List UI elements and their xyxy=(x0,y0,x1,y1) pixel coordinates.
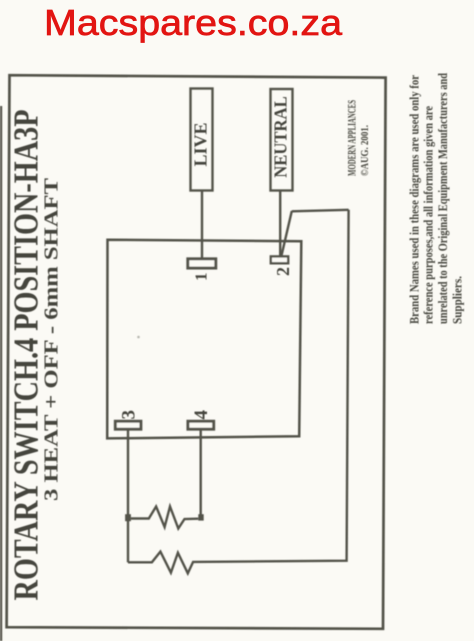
node square left xyxy=(125,514,131,521)
terminal 1 xyxy=(188,259,216,268)
svg-text:Suppliers.: Suppliers. xyxy=(450,276,465,324)
wire terminal 4 down xyxy=(199,429,201,515)
wire diagonal from terminal 2 xyxy=(281,211,292,256)
resistor R1 xyxy=(131,507,199,529)
paper speck xyxy=(137,336,140,339)
svg-text:MODERN APPLIANCES: MODERN APPLIANCES xyxy=(347,100,359,176)
wire node left down xyxy=(127,521,129,562)
svg-text:3: 3 xyxy=(119,410,140,420)
svg-text:reference purposes,and all inf: reference purposes,and all information g… xyxy=(421,106,436,324)
svg-text:1: 1 xyxy=(192,273,211,282)
NEUTRAL box xyxy=(271,89,293,191)
svg-text:Macspares.co.za: Macspares.co.za xyxy=(44,2,343,43)
wire terminal 3 down xyxy=(127,429,129,515)
resistor R2 and return wire to terminal 2 line xyxy=(128,210,349,574)
scan edge artifact left xyxy=(0,106,2,641)
svg-text:NEUTRAL: NEUTRAL xyxy=(271,96,291,178)
svg-text:4: 4 xyxy=(191,410,212,420)
svg-text:2: 2 xyxy=(273,267,293,276)
switch body box xyxy=(107,240,301,439)
terminal 2 xyxy=(271,256,288,263)
wire NEUTRAL to terminal 2 xyxy=(279,191,281,258)
LIVE box xyxy=(191,89,213,191)
node square right xyxy=(198,514,203,520)
outer page border xyxy=(7,75,386,629)
wire LIVE to terminal 1 xyxy=(201,191,203,260)
svg-text:©AUG. 2001.: ©AUG. 2001. xyxy=(359,125,371,176)
svg-text:3 HEAT + OFF - 6mm SHAFT: 3 HEAT + OFF - 6mm SHAFT xyxy=(41,177,63,501)
terminal 4 xyxy=(188,421,214,429)
terminal 3 xyxy=(115,421,141,429)
svg-text:LIVE: LIVE xyxy=(191,123,211,167)
svg-text:Brand Names used in these diag: Brand Names used in these diagrams are u… xyxy=(407,75,422,324)
wire horizontal to right xyxy=(292,210,349,212)
svg-text:unrelated to the Original Equi: unrelated to the Original Equipment Manu… xyxy=(435,72,450,324)
